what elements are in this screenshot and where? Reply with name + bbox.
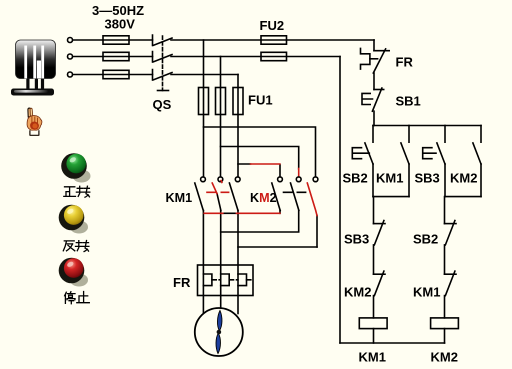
svg-text:SB2: SB2 xyxy=(413,232,438,247)
bottom rail xyxy=(340,342,445,344)
wire join V phase y232 xyxy=(221,211,299,233)
wire right branch down xyxy=(444,197,446,224)
motor wire V vertical xyxy=(220,211,222,309)
contactor KM2 main contacts xyxy=(278,177,318,182)
svg-text:KM1: KM1 xyxy=(376,171,403,186)
wire C to KM2 left red part xyxy=(251,163,280,165)
motor wire W vertical xyxy=(237,211,239,314)
coil KM1 xyxy=(359,318,387,329)
label 反转 xyxy=(63,241,89,252)
motor fan blade bottom xyxy=(216,333,220,353)
wire join U black mid xyxy=(223,212,237,214)
KM2 contact 3 terminal xyxy=(313,177,318,182)
KM2 linkage dash xyxy=(284,191,306,193)
KM1 NC bar xyxy=(445,273,457,275)
svg-text:KM1: KM1 xyxy=(166,191,193,205)
FR contact blade xyxy=(373,49,385,73)
SB3 NC blade xyxy=(374,221,384,245)
wire join W phase y247 xyxy=(238,246,317,248)
SB2 NC blade xyxy=(445,221,455,245)
wire FR to SB1 xyxy=(373,73,375,90)
svg-text:KM2: KM2 xyxy=(450,171,477,186)
motor M xyxy=(195,308,243,356)
SB2 stub xyxy=(372,126,374,143)
fuse FU1a xyxy=(199,88,209,115)
wire L1 after QS xyxy=(171,39,374,41)
terminal L2 xyxy=(68,54,73,59)
KM1 contact 2 red tick xyxy=(220,181,223,183)
control circuit xyxy=(340,40,481,343)
indicator light red xyxy=(59,258,88,287)
KM1 contact 1 terminal xyxy=(201,177,206,182)
svg-text:KM1: KM1 xyxy=(359,350,386,365)
fuse L3 xyxy=(103,70,129,78)
fuse FU2b xyxy=(261,52,287,60)
wire phase C vertical xyxy=(237,75,239,177)
merge bar right xyxy=(445,196,481,198)
SB3 NC bar xyxy=(374,223,386,225)
switch QS pole 1 xyxy=(153,35,173,46)
terminal L3 xyxy=(68,72,73,77)
wire phase B vertical xyxy=(220,57,222,177)
KM2 NC blade xyxy=(374,271,384,296)
QS linkage dashed xyxy=(162,36,164,91)
terminal L1 xyxy=(68,38,73,43)
SB3 stub xyxy=(444,126,446,143)
merge bar left xyxy=(373,196,409,198)
svg-text:SB1: SB1 xyxy=(396,94,421,109)
svg-text:KM1: KM1 xyxy=(413,285,440,300)
KM2 blade 3 red xyxy=(307,183,317,216)
wire SB3 down xyxy=(444,164,446,197)
label 停止 xyxy=(65,292,90,304)
SB1 actuator E xyxy=(362,93,373,104)
KM1 linkage dash red xyxy=(207,191,229,193)
svg-text:380V: 380V xyxy=(105,17,136,32)
wire C to KM2 left black part xyxy=(238,164,280,177)
FR linkage dashes xyxy=(212,279,253,281)
KM1 contact 3 terminal xyxy=(235,177,240,182)
wire L2 after QS xyxy=(171,56,340,58)
SB2 NC bar xyxy=(445,223,457,225)
wire SB2 down xyxy=(372,164,374,197)
wire SB1 to bus xyxy=(373,111,375,125)
SB3 NO blade xyxy=(437,143,445,164)
KM1 blade 2 upper red xyxy=(212,183,217,194)
KM2 right lower vertical xyxy=(316,216,318,248)
wire coil KM2 to rail xyxy=(444,329,446,343)
power source icon xyxy=(11,40,56,96)
KM2 NC bar xyxy=(374,273,386,275)
KM1 aux NO blade xyxy=(401,143,409,164)
motor fan blade top xyxy=(217,311,221,331)
wire L3 after QS xyxy=(171,74,238,76)
wire B to KM2 middle xyxy=(221,147,299,170)
svg-text:FU2: FU2 xyxy=(260,18,285,33)
fuse FU2a xyxy=(261,36,287,44)
FR heater 2 xyxy=(221,274,230,286)
indicator light yellow xyxy=(59,205,88,234)
wire A to KM2 right xyxy=(204,127,316,177)
fuse L2 xyxy=(103,52,129,60)
fuse FU1b xyxy=(216,88,226,115)
coil KM2 xyxy=(431,318,459,329)
svg-text:FR: FR xyxy=(396,55,414,70)
label 正转 xyxy=(64,186,90,197)
wire phase A vertical xyxy=(203,40,205,177)
SB3 actuator E xyxy=(423,148,436,159)
SB1 fixed bar xyxy=(374,89,384,91)
fuse L1 xyxy=(103,36,129,44)
wire to coil KM1 xyxy=(373,296,375,318)
wire join U red left xyxy=(204,212,223,214)
svg-text:KM2: KM2 xyxy=(250,191,277,205)
control bus bar xyxy=(373,125,481,127)
svg-text:KM2: KM2 xyxy=(344,285,371,300)
KM2 contact 2 terminal xyxy=(296,177,301,182)
wire L1 down to FR contact xyxy=(373,40,375,51)
wire to coil KM2 xyxy=(444,296,446,318)
wire to KM2 NC xyxy=(373,245,375,274)
motor wire U vertical xyxy=(202,211,204,314)
KM1 blade 2 lower xyxy=(217,194,221,211)
indicator light green xyxy=(61,153,90,182)
svg-text:SB3: SB3 xyxy=(344,232,369,247)
wire L2 left xyxy=(73,56,153,58)
KM2 aux stub xyxy=(480,126,482,143)
wire coil KM1 to rail xyxy=(373,329,375,343)
left rail from L2 xyxy=(339,57,341,344)
wire KM1 aux down xyxy=(408,164,410,197)
switch QS pole 3 xyxy=(153,70,173,81)
FR thermal element xyxy=(361,48,370,69)
switch QS pole 2 xyxy=(153,52,173,63)
svg-text:QS: QS xyxy=(153,97,172,112)
wire L1 left xyxy=(73,39,153,41)
wire KM2-1 bottom stub xyxy=(279,211,281,214)
KM1 contact 2 terminal xyxy=(218,177,223,182)
SB1 blade xyxy=(372,88,382,111)
wire red drop to KM2 middle xyxy=(298,169,300,177)
wire to KM1 NC xyxy=(444,245,446,274)
SB2 actuator E xyxy=(352,148,369,159)
KM1 aux stub xyxy=(408,126,410,143)
FR heater 3 xyxy=(238,274,247,286)
wire L3 left xyxy=(73,74,153,76)
KM2 contact 1 terminal xyxy=(278,177,283,182)
FR heater 1 xyxy=(203,274,212,286)
FR element connector xyxy=(370,58,378,60)
KM1 blade 3 xyxy=(229,183,238,211)
svg-text:KM2: KM2 xyxy=(431,350,458,365)
motor hub xyxy=(217,330,222,335)
fuse FU1c xyxy=(233,88,243,115)
svg-text:SB2: SB2 xyxy=(343,171,368,186)
svg-text:FU1: FU1 xyxy=(248,93,273,108)
KM2 blade 2 xyxy=(291,183,299,211)
wire left branch down xyxy=(373,197,375,224)
svg-text:FR: FR xyxy=(173,275,191,290)
source terminals xyxy=(68,38,73,78)
wire join U red right xyxy=(236,212,280,214)
KM2 aux NO blade xyxy=(473,143,481,164)
svg-text:SB3: SB3 xyxy=(415,171,440,186)
SB2 NO blade xyxy=(365,143,373,164)
contactor KM1 main contacts xyxy=(201,177,241,182)
KM2 blade 1 xyxy=(272,183,280,211)
KM1 blade 1 xyxy=(195,183,204,211)
hand pointer icon xyxy=(27,108,42,135)
KM1 NC blade xyxy=(445,271,455,296)
QS handle tick xyxy=(158,90,169,92)
FR contact fixed bar xyxy=(374,50,389,52)
wire KM2 aux down xyxy=(480,164,482,197)
thermal relay FR box xyxy=(198,265,254,296)
